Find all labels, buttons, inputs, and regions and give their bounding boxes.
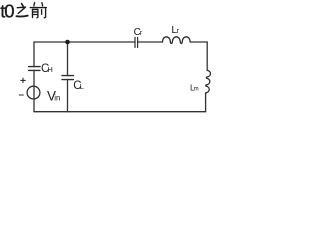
wire bottom (34, 111, 206, 113)
wire left vertical lower (33, 70, 35, 111)
label Lm (190, 83, 199, 93)
wire right vertical upper (206, 42, 208, 70)
capacitor CH (29, 67, 40, 71)
capacitor Cr (135, 37, 138, 47)
wire right vertical lower (205, 93, 207, 112)
plus sign (21, 78, 25, 82)
label Cr (134, 27, 143, 38)
label CH (41, 63, 53, 75)
label Lr (171, 24, 179, 36)
minus sign (19, 94, 23, 96)
svg-text:L: L (80, 82, 84, 91)
wire CL branch upper (67, 42, 69, 76)
svg-text:t0: t0 (0, 0, 14, 21)
svg-text:r: r (177, 26, 180, 35)
svg-text:H: H (47, 65, 52, 74)
wire top mid segment (138, 41, 163, 43)
wire left vertical upper (33, 42, 35, 67)
inductor Lm (206, 70, 211, 92)
inductor Lr (162, 37, 190, 44)
svg-text:m: m (194, 87, 199, 93)
junction dot node A (65, 40, 70, 45)
label CL (73, 80, 84, 92)
hanzi zhi (16, 4, 27, 17)
source Vin circle (27, 86, 40, 99)
label Vin (47, 88, 60, 103)
svg-text:in: in (54, 93, 60, 102)
hanzi qian (30, 3, 46, 18)
svg-text:r: r (140, 28, 143, 37)
wire CL branch lower (67, 80, 69, 112)
wire top left segment (34, 41, 135, 43)
wire top right segment (190, 41, 207, 43)
capacitor CL (62, 76, 73, 80)
